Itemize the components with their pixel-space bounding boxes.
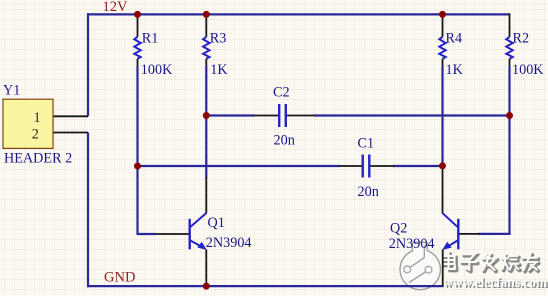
connector Y1 body bbox=[3, 99, 53, 148]
svg-text:Q2: Q2 bbox=[390, 220, 407, 236]
wire: left vertical from 12V rail to header pin 1 bbox=[87, 13, 89, 116]
svg-text:Q1: Q1 bbox=[208, 215, 225, 231]
pin 1 of Y1 bbox=[34, 110, 89, 126]
wire: R2 bottom to C2 node bbox=[508, 66, 510, 116]
capacitor C2 bbox=[253, 85, 315, 149]
watermark text www.elecfans.com (embossed) bbox=[443, 274, 548, 290]
svg-text:20n: 20n bbox=[274, 133, 295, 149]
svg-text:R2: R2 bbox=[513, 31, 530, 47]
svg-text:1K: 1K bbox=[446, 62, 464, 78]
svg-text:C2: C2 bbox=[273, 85, 290, 101]
wire: R1 bottom to C1 node and down to Q1 base corner bbox=[138, 66, 156, 235]
svg-text:C1: C1 bbox=[358, 136, 375, 152]
resistor R2 bbox=[506, 13, 544, 78]
svg-text:12V: 12V bbox=[103, 0, 129, 15]
wire: Q2 base wire from bar to R2 column and up to C2 node bbox=[478, 116, 511, 236]
svg-text:GND: GND bbox=[104, 270, 135, 286]
node: junction R3 / 12V rail bbox=[203, 11, 210, 18]
svg-text:2N3904: 2N3904 bbox=[389, 236, 435, 252]
node: Q2 collector / C1 right / R4 bbox=[439, 162, 446, 169]
node: junction R4 / 12V rail bbox=[439, 11, 446, 18]
wire: header pin 2 down to GND rail bbox=[87, 133, 89, 288]
transistor Q1 2N3904 bbox=[155, 177, 252, 287]
svg-text:20n: 20n bbox=[358, 184, 379, 200]
node: Q2 base / C2 right / R2 bbox=[506, 112, 513, 119]
svg-text:R3: R3 bbox=[210, 31, 227, 47]
pin 2 of Y1 bbox=[32, 126, 88, 142]
capacitor C1 bbox=[339, 136, 394, 201]
wire: C2 right segment to R2/Q2-base node bbox=[314, 114, 510, 116]
transistor Q2 2N3904 bbox=[389, 166, 479, 287]
resistor R4 bbox=[439, 15, 463, 78]
svg-text:www.elecfans.com: www.elecfans.com bbox=[443, 274, 547, 289]
wire: C1 left segment from Q1 base node bbox=[138, 165, 341, 167]
resistor R3 bbox=[203, 15, 228, 78]
node: Q1 collector / C2 left bbox=[203, 112, 210, 119]
resistor R1 bbox=[134, 15, 173, 78]
connector Y1 designator bbox=[3, 83, 20, 99]
svg-text:2N3904: 2N3904 bbox=[206, 235, 252, 251]
svg-text:100K: 100K bbox=[141, 62, 173, 78]
node: junction R1 / 12V rail bbox=[134, 11, 141, 18]
wire: R4 bottom through C2 crossing down to C1 node bbox=[441, 66, 443, 168]
connector Y1 value HEADER 2 bbox=[4, 151, 72, 167]
svg-text:R4: R4 bbox=[446, 31, 463, 47]
wire: GND bottom rail bbox=[87, 285, 444, 287]
watermark logo (white embossed circle with PCB pads) bbox=[400, 242, 440, 289]
wire: C1 right segment to Q2 collector node bbox=[393, 165, 443, 167]
svg-text:1: 1 bbox=[34, 110, 41, 126]
svg-text:Y1: Y1 bbox=[3, 83, 20, 99]
wire: 12V top rail bbox=[87, 13, 510, 15]
svg-text:R1: R1 bbox=[142, 31, 159, 47]
net label 12V bbox=[103, 0, 129, 15]
svg-text:2: 2 bbox=[32, 126, 39, 142]
wire: R3 bottom through C2 node down to Q1 collector bbox=[205, 66, 207, 178]
svg-text:1K: 1K bbox=[210, 62, 228, 78]
svg-text:100K: 100K bbox=[512, 62, 544, 78]
net label GND bbox=[104, 270, 135, 286]
node: Q1 emitter / GND rail bbox=[203, 283, 210, 290]
wire: C2 left segment from Q1 collector node bbox=[206, 114, 254, 116]
svg-text:HEADER 2: HEADER 2 bbox=[4, 151, 72, 167]
node: Q1 base / C1 left / R1 bbox=[134, 163, 141, 170]
